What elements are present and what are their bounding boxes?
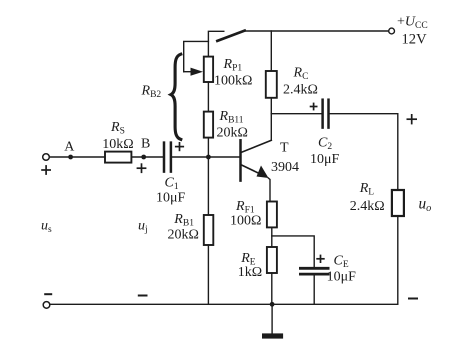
node B <box>141 155 146 160</box>
terminal +Ucc <box>389 28 395 34</box>
svg-text:10μF: 10μF <box>156 190 186 205</box>
resistor RE <box>267 247 277 273</box>
svg-text:100kΩ: 100kΩ <box>214 73 252 88</box>
svg-text:10μF: 10μF <box>327 270 357 285</box>
svg-text:B: B <box>141 137 150 152</box>
capacitor C2 <box>321 100 324 128</box>
resistor RF1 <box>267 202 277 228</box>
wire emitter node to CE <box>272 236 314 267</box>
capacitor C1 <box>163 143 166 172</box>
svg-text:10kΩ: 10kΩ <box>102 137 133 152</box>
resistor RS <box>105 152 131 163</box>
wire RB11 to base node <box>207 138 209 157</box>
wire wiper link <box>184 41 209 71</box>
wire bottom rail <box>49 303 398 305</box>
svg-text:2.4kΩ: 2.4kΩ <box>283 82 318 97</box>
label - at output <box>408 298 418 300</box>
resistor RC <box>266 71 277 98</box>
node A <box>68 155 73 160</box>
label - at input bottom <box>44 293 52 295</box>
label - at middle bottom <box>138 295 148 297</box>
svg-text:T: T <box>280 140 289 155</box>
resistor RL <box>392 190 404 216</box>
wire RF1 to RE / emitter node <box>271 227 273 247</box>
svg-text:10μF: 10μF <box>310 152 340 167</box>
terminal input + <box>43 154 50 161</box>
capacitor CE <box>300 267 328 270</box>
resistor RB11 <box>204 112 213 138</box>
svg-text:3904: 3904 <box>271 160 299 175</box>
resistor RP1 <box>204 57 213 82</box>
transistor T collector line <box>241 140 271 152</box>
wire C2 to output corner <box>330 114 398 190</box>
wiper arrow of RP1 <box>184 71 192 73</box>
wire RB1 to ground rail <box>207 245 209 304</box>
node ground junction <box>270 302 275 307</box>
wire RL to bottom rail <box>397 216 399 304</box>
svg-text:20kΩ: 20kΩ <box>217 125 248 140</box>
wire top rail <box>245 30 389 32</box>
label + at B <box>137 167 147 169</box>
transistor T base bar <box>239 140 242 180</box>
label + at C2 <box>310 106 318 108</box>
wire collector up <box>270 98 272 141</box>
resistor RB1 <box>204 215 214 245</box>
wire collector node to C2 <box>271 113 321 115</box>
wire RS to C1 <box>131 156 162 158</box>
svg-text:1kΩ: 1kΩ <box>238 265 262 280</box>
transistor T emitter line with arrow <box>241 165 262 175</box>
wire top rail to RC <box>270 31 272 71</box>
label + at C1 <box>175 146 184 148</box>
switch blade <box>217 31 244 41</box>
wire switch contact stub <box>208 31 223 56</box>
terminal input - <box>43 302 50 309</box>
brace RB2 <box>171 54 181 139</box>
label + at CE <box>316 258 324 260</box>
svg-text:A: A <box>64 140 75 155</box>
wire input terminal to RS <box>49 156 105 158</box>
wire RP1 to RB11 <box>207 82 209 112</box>
ground <box>262 333 283 338</box>
wire CE to bottom rail <box>313 276 315 305</box>
svg-text:2.4kΩ: 2.4kΩ <box>350 199 385 214</box>
node base junction <box>206 155 211 160</box>
svg-text:20kΩ: 20kΩ <box>168 227 199 242</box>
svg-text:12V: 12V <box>402 31 428 47</box>
label + at input <box>41 169 51 171</box>
svg-text:100Ω: 100Ω <box>230 213 261 228</box>
wire ground drop <box>271 304 273 333</box>
label + at output <box>407 118 418 120</box>
wire emitter down to RF1 <box>268 178 270 202</box>
wire C1 to base <box>172 156 239 158</box>
wire RE to bottom rail <box>271 273 273 304</box>
wire base node to RB1 <box>207 157 209 215</box>
